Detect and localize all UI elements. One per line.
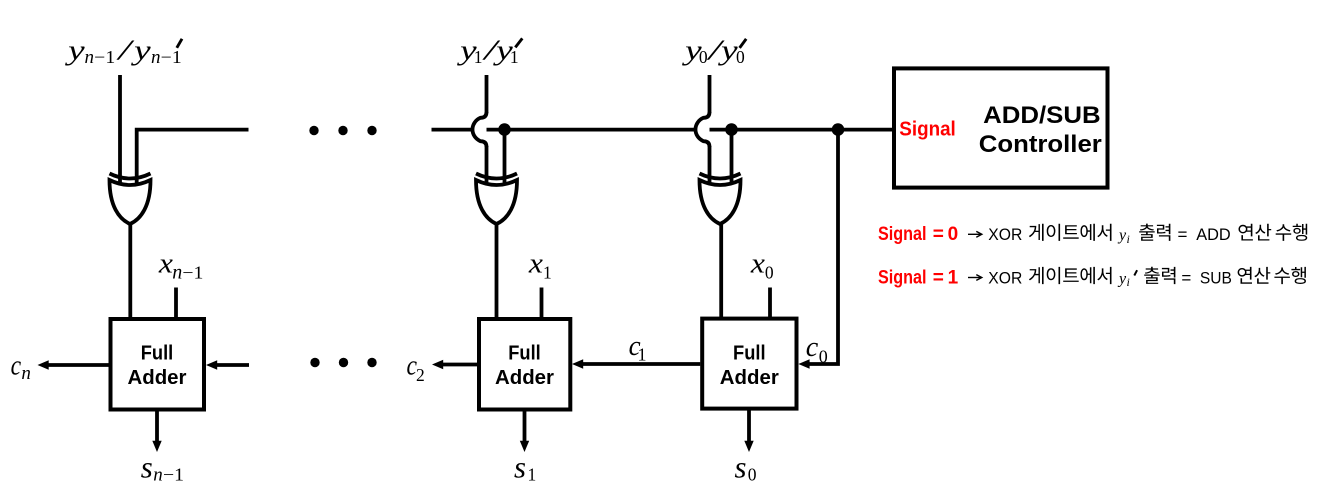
svg-text:n: n: [172, 262, 182, 284]
svg-text:−1: −1: [163, 465, 184, 485]
label: korean 'gate-eseo' line 0: [1029, 224, 1112, 241]
wire: y_n-1 input vertical: [118, 75, 122, 186]
label: korean 'operation' line 0: [1239, 224, 1272, 241]
wire: s_1 output arrow: [523, 412, 527, 442]
svg-text:s: s: [141, 450, 153, 485]
svg-text:=: =: [1178, 225, 1188, 244]
xor gate X2 input double-curve: [476, 174, 517, 179]
svg-text:Controller: Controller: [979, 131, 1102, 158]
svg-text:1: 1: [510, 47, 519, 67]
svg-text:1: 1: [528, 465, 537, 485]
wire: c_2 arrow into FA2: [442, 363, 477, 367]
svg-text:Signal: Signal: [878, 267, 927, 288]
wire: y_1 input vertical above hop: [485, 75, 489, 113]
svg-text:=: =: [1181, 268, 1191, 287]
svg-text:−1: −1: [94, 47, 115, 67]
svg-text:Adder: Adder: [128, 367, 187, 389]
wire: tap from bus to XOR X1: [730, 130, 734, 186]
svg-text:c: c: [806, 331, 819, 363]
wire: X1 output to FA1: [719, 222, 723, 321]
wire: s_0 output arrow: [747, 411, 751, 442]
svg-text:n: n: [151, 47, 161, 68]
xor gate X3 input double-curve: [110, 174, 151, 179]
label: korean 'operation' line 1: [1238, 267, 1271, 284]
svg-text:i: i: [1127, 232, 1130, 246]
label: korean 'perform' line 0: [1276, 224, 1308, 241]
label: arrow line 0: [968, 233, 981, 235]
svg-text:ADD: ADD: [1196, 225, 1231, 244]
wire: c_n output arrow from FA3: [48, 363, 109, 367]
svg-text:x: x: [158, 247, 173, 279]
svg-text:2: 2: [416, 365, 425, 385]
node: ellipsis dots on signal bus: [309, 126, 318, 135]
wire: c_1 from FA1 to FA2: [582, 362, 700, 366]
svg-text:1: 1: [474, 47, 483, 67]
wire: X3 output to FA3: [128, 222, 132, 319]
xor gate X2 body: [476, 180, 517, 224]
svg-text:n: n: [21, 363, 31, 384]
wire: x_0 input: [768, 288, 772, 320]
ADD/SUB controller box: [894, 68, 1108, 187]
svg-text:=: =: [933, 224, 944, 245]
wire: X2 output to FA2: [495, 222, 499, 319]
svg-text:0: 0: [736, 47, 745, 67]
svg-text:Full: Full: [508, 343, 541, 365]
node: junction dot at c0 tap: [832, 123, 845, 136]
wire: y_0 input vertical below hop: [708, 146, 712, 186]
svg-text:1: 1: [638, 345, 647, 365]
node: junction dot at X2 tap: [498, 123, 511, 136]
svg-text:x: x: [750, 247, 765, 279]
svg-text:y: y: [64, 35, 85, 67]
svg-text:0: 0: [819, 347, 828, 367]
wire: y_0 input vertical above hop: [708, 75, 712, 113]
full adder FA3 box: [111, 319, 205, 410]
svg-text:n: n: [85, 47, 95, 68]
wire: tap from bus to XOR X2: [503, 130, 507, 186]
label: korean 'output' line 1: [1144, 267, 1175, 284]
full adder FA1 box: [702, 319, 796, 409]
svg-text:−1: −1: [161, 47, 182, 67]
svg-text:y: y: [717, 35, 738, 67]
wire: carry into FA3 right side: [216, 363, 249, 367]
label: korean 'perform' line 1: [1274, 267, 1306, 284]
label: korean 'gate-eseo' line 1: [1029, 267, 1112, 284]
svg-text:=: =: [933, 267, 944, 288]
svg-text:0: 0: [765, 263, 774, 283]
svg-text:0: 0: [948, 224, 959, 245]
xor gate X1 body: [700, 180, 741, 224]
svg-text:i: i: [1127, 275, 1130, 289]
wire: x_1 input: [540, 288, 544, 320]
svg-text:c: c: [11, 350, 22, 382]
wire: x_n-1 input: [174, 288, 178, 320]
svg-text:Adder: Adder: [720, 367, 779, 389]
svg-text:y: y: [1117, 270, 1127, 287]
full adder FA2 box: [479, 319, 570, 410]
svg-text:s: s: [735, 450, 747, 485]
svg-text:Full: Full: [733, 343, 766, 365]
xor gate X1 input double-curve: [700, 174, 741, 179]
xor gate X3 body: [110, 180, 151, 224]
svg-text:1: 1: [948, 267, 959, 288]
svg-text:SUB: SUB: [1200, 268, 1232, 287]
node: ellipsis dots carry chain: [310, 358, 319, 367]
svg-text:XOR: XOR: [988, 268, 1022, 287]
svg-text:XOR: XOR: [988, 225, 1022, 244]
svg-text:0: 0: [699, 47, 708, 67]
node: junction dot at X1 tap: [725, 123, 738, 136]
label: arrow line 1: [968, 277, 981, 279]
wire: signal bus main segment to controller: [432, 128, 895, 132]
svg-text:Adder: Adder: [495, 367, 554, 389]
wire: y_0 hop over signal bus: [695, 112, 709, 147]
svg-text:−1: −1: [182, 263, 203, 283]
svg-text:n: n: [153, 465, 163, 486]
svg-text:s: s: [514, 450, 526, 485]
wire: y_1 input vertical below hop: [485, 146, 489, 186]
wire: signal bus left segment with corner down to XOR X3 input: [137, 130, 249, 185]
svg-text:Signal: Signal: [878, 224, 927, 245]
svg-text:Full: Full: [141, 343, 174, 365]
label: korean 'output' line 0: [1139, 224, 1170, 241]
svg-text:1: 1: [543, 263, 552, 283]
wire: c_0 from signal bus down into FA1: [810, 130, 839, 364]
svg-text:x: x: [528, 247, 543, 279]
svg-text:0: 0: [748, 465, 757, 485]
svg-text:y: y: [130, 35, 151, 67]
wire: y_1 hop over signal bus: [472, 112, 486, 147]
svg-text:y: y: [1117, 227, 1127, 244]
wire: s_n-1 output arrow: [155, 412, 159, 442]
svg-text:ADD/SUB: ADD/SUB: [983, 102, 1101, 129]
svg-text:Signal: Signal: [899, 119, 956, 141]
